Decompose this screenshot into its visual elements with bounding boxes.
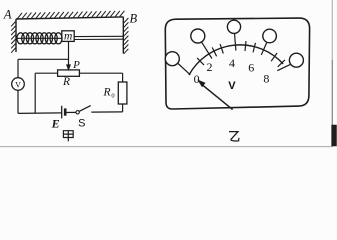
svg-text:P: P: [72, 59, 80, 71]
svg-text:4: 4: [229, 56, 235, 70]
svg-text:m: m: [64, 31, 72, 43]
svg-text:V: V: [228, 80, 236, 92]
svg-text:0: 0: [194, 72, 200, 86]
svg-text:R: R: [62, 76, 70, 88]
svg-text:S: S: [78, 118, 85, 130]
svg-text:V: V: [15, 81, 21, 90]
svg-text:0: 0: [111, 93, 114, 100]
svg-text:2: 2: [207, 60, 213, 74]
svg-text:B: B: [129, 12, 137, 26]
svg-text:A: A: [3, 8, 12, 22]
svg-text:8: 8: [263, 72, 269, 86]
svg-text:R: R: [102, 87, 110, 99]
svg-text:E: E: [51, 117, 60, 131]
svg-text:6: 6: [248, 60, 254, 74]
